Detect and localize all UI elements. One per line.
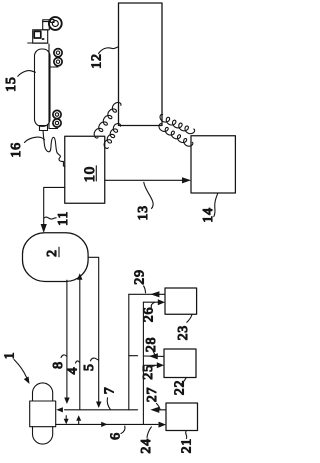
svg-text:2: 2 bbox=[45, 249, 60, 257]
label 15 bbox=[4, 71, 36, 92]
line 6 from pump to box 21 (arrow 24) bbox=[56, 422, 166, 428]
pump 1: lower dome bbox=[33, 427, 53, 444]
label 29 bbox=[133, 269, 148, 293]
label 4 bbox=[66, 361, 81, 375]
svg-text:28: 28 bbox=[144, 337, 159, 352]
svg-text:4: 4 bbox=[66, 367, 81, 375]
bus line A (from arrows 29/28 down to line 7) bbox=[128, 294, 130, 410]
line 4 lower segment with up arrowhead bbox=[76, 415, 81, 424]
svg-text:24: 24 bbox=[139, 438, 154, 453]
tanker truck 15: rear valve bbox=[40, 126, 48, 131]
svg-text:22: 22 bbox=[173, 380, 188, 395]
label 1 with curved arrow bbox=[3, 352, 30, 384]
vessel 12 (tall rectangle) bbox=[119, 3, 163, 126]
bus line B (from arrow 26 down to line 6) bbox=[142, 302, 144, 424]
label 10 inside box (underlined) bbox=[82, 166, 98, 183]
tanker truck 15: chassis line bbox=[49, 44, 58, 129]
label 2 inside ellipse (underlined) bbox=[45, 247, 60, 257]
box 23 bbox=[165, 288, 197, 314]
label 6 bbox=[109, 426, 125, 440]
label 23 bbox=[176, 315, 192, 341]
svg-text:16: 16 bbox=[9, 142, 24, 157]
arrow 27 segment from box 21 bbox=[150, 407, 166, 413]
hose 16 from tank to box 10 bbox=[43, 131, 65, 167]
label 26 bbox=[141, 303, 156, 323]
svg-text:21: 21 bbox=[180, 438, 195, 453]
svg-text:13: 13 bbox=[136, 205, 151, 220]
label 25 bbox=[141, 364, 156, 379]
label 28 bbox=[144, 337, 159, 356]
label 21 with tilde bbox=[180, 432, 195, 454]
svg-text:29: 29 bbox=[133, 269, 148, 284]
svg-text:25: 25 bbox=[141, 364, 156, 379]
tanker truck 15: bumper line bbox=[28, 42, 48, 44]
line 5 from ellipse right side down bbox=[88, 257, 102, 408]
tanker truck 15: mirror notch bbox=[51, 20, 54, 23]
tanker truck 15: fender arc bbox=[49, 17, 54, 21]
label 13 bbox=[136, 182, 153, 220]
svg-text:14: 14 bbox=[201, 207, 216, 222]
arrow 13 from box 10 to box 14 bbox=[105, 177, 191, 183]
line 4 up into ellipse bottom bbox=[77, 273, 83, 410]
arrow 11 from box 10 to tank 2 bbox=[41, 187, 65, 233]
label 16 bbox=[9, 137, 45, 158]
pump 1: body rect bbox=[30, 401, 56, 427]
box 21 bbox=[166, 403, 198, 431]
tanker truck 15: trailer wheel 2 bbox=[53, 119, 61, 127]
tanker truck 15: tank body bbox=[35, 49, 51, 126]
coil hose upper-right strand bbox=[160, 114, 195, 133]
label 11 with tilde leader bbox=[45, 211, 71, 226]
box 22 bbox=[164, 349, 196, 378]
coil hose lower-left strand bbox=[104, 124, 121, 149]
coil hose lower-right strand bbox=[159, 124, 193, 147]
tanker truck 15: cab window bbox=[34, 31, 41, 38]
label 7 bbox=[102, 387, 117, 410]
svg-text:15: 15 bbox=[4, 76, 19, 91]
tanker truck 15: front wheel bbox=[49, 17, 62, 30]
label 14 bbox=[201, 193, 218, 223]
arrow 28 from box 22 to bus A bbox=[129, 353, 164, 359]
tanker truck 15: door handle dot bbox=[42, 38, 45, 40]
svg-text:26: 26 bbox=[141, 307, 156, 322]
svg-text:5: 5 bbox=[82, 363, 97, 371]
svg-text:8: 8 bbox=[51, 361, 66, 369]
tanker truck 15: tractor wheel 1 bbox=[54, 49, 62, 57]
arrow 25 from bus B into box 22 bbox=[143, 362, 164, 368]
label 27 bbox=[145, 387, 160, 410]
tanker truck 15: tractor axle bar bbox=[49, 66, 58, 68]
pump 1: upper dome bbox=[33, 383, 53, 401]
line 7 horizontal into pump (with arrowhead at pump) bbox=[56, 407, 137, 412]
tanker truck 15: hood grille line bbox=[43, 21, 50, 23]
svg-text:23: 23 bbox=[176, 325, 191, 340]
svg-text:11: 11 bbox=[56, 211, 71, 226]
svg-text:27: 27 bbox=[145, 387, 160, 402]
label 5 bbox=[82, 358, 99, 371]
svg-text:7: 7 bbox=[102, 387, 117, 395]
svg-text:10: 10 bbox=[82, 166, 98, 182]
svg-text:1: 1 bbox=[3, 352, 18, 360]
coil hose upper-left strand bbox=[94, 103, 121, 139]
label 22 bbox=[173, 378, 188, 395]
tanker truck 15: tractor wheel 2 bbox=[54, 58, 62, 66]
box 14 bbox=[191, 136, 235, 193]
tanker truck 15: cab bbox=[33, 30, 48, 43]
tanker truck 15: trailer wheel 1 bbox=[53, 110, 61, 118]
label 12 bbox=[90, 47, 119, 69]
svg-text:12: 12 bbox=[90, 53, 105, 68]
label 24 bbox=[139, 427, 154, 454]
line 8 lower segment with arrowhead onto line 6 bbox=[64, 416, 69, 425]
arrow 29 from box 23 to bus A bbox=[129, 291, 165, 297]
tanker truck 15: hood bbox=[43, 20, 50, 30]
label 8 bbox=[51, 355, 66, 369]
line 8 from ellipse bottom down bbox=[64, 280, 70, 404]
arrow 26 from bus B into box 23 bbox=[143, 299, 165, 305]
tank 2 (ellipse) bbox=[23, 233, 89, 282]
box 10 bbox=[65, 136, 105, 203]
